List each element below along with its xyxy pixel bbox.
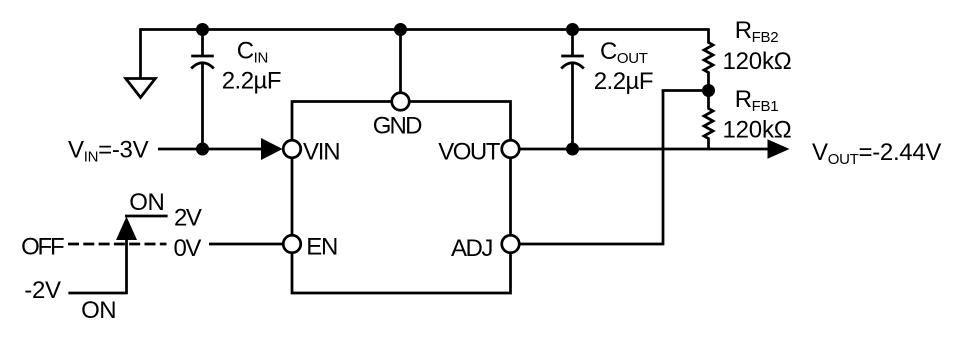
svg-text:2.2µF: 2.2µF: [594, 68, 653, 95]
svg-text:120kΩ: 120kΩ: [723, 48, 792, 75]
wire VIN input: [158, 148, 263, 151]
pin GND circle: [392, 93, 410, 111]
svg-text:2V: 2V: [174, 205, 202, 232]
pin ADJ circle: [502, 235, 520, 253]
wire ADJ feedback: [519, 91, 708, 245]
svg-text:ON: ON: [81, 297, 116, 324]
svg-text:-2V: -2V: [24, 277, 61, 304]
node junction dot VOUT: [566, 143, 579, 156]
resistor RFB2: [704, 28, 713, 90]
svg-text:OFF: OFF: [21, 234, 64, 261]
node VIN arrow: [261, 138, 283, 160]
capacitor C2 plates: [561, 55, 584, 58]
svg-text:GND: GND: [373, 113, 422, 140]
svg-text:VIN=-3V: VIN=-3V: [68, 137, 149, 166]
node junction dot VIN: [196, 143, 209, 156]
wire EN 2V level: [125, 215, 168, 218]
svg-text:EN: EN: [306, 234, 337, 261]
svg-text:120kΩ: 120kΩ: [723, 117, 792, 144]
wire top rail: [141, 28, 709, 31]
svg-text:2.2µF: 2.2µF: [222, 68, 281, 95]
wire ground drop: [139, 28, 142, 78]
node VOUT arrow: [768, 139, 790, 158]
wire EN riser: [125, 238, 128, 294]
wire EN -2V level: [68, 292, 126, 295]
ground: [126, 79, 156, 98]
capacitor C1 plates: [191, 55, 214, 58]
svg-text:VIN: VIN: [303, 139, 339, 166]
wire VOUT line: [519, 148, 769, 151]
svg-text:0V: 0V: [174, 235, 202, 262]
wire EN input: [209, 243, 283, 246]
svg-text:ON: ON: [129, 189, 164, 216]
svg-text:ADJ: ADJ: [451, 235, 492, 262]
op-amp U1 body: [292, 102, 511, 294]
wire GND riser: [399, 28, 402, 92]
wire COUT bottom: [571, 63, 574, 149]
pin EN circle: [283, 235, 301, 253]
node junction dot rail CIN: [196, 23, 209, 36]
wire CIN top: [201, 28, 204, 56]
wire EN 0V dashed level: [68, 243, 167, 246]
svg-text:VOUT: VOUT: [438, 139, 501, 166]
node junction dot rail COUT: [566, 23, 579, 36]
wire COUT top: [571, 28, 574, 56]
node junction dot feedback: [702, 84, 715, 97]
pin VOUT circle: [502, 140, 520, 158]
wire CIN bottom: [201, 63, 204, 149]
node EN riser arrow: [116, 217, 137, 241]
node junction dot rail GND: [394, 23, 407, 36]
pin VIN circle: [283, 140, 301, 158]
resistor RFB1: [704, 91, 713, 150]
